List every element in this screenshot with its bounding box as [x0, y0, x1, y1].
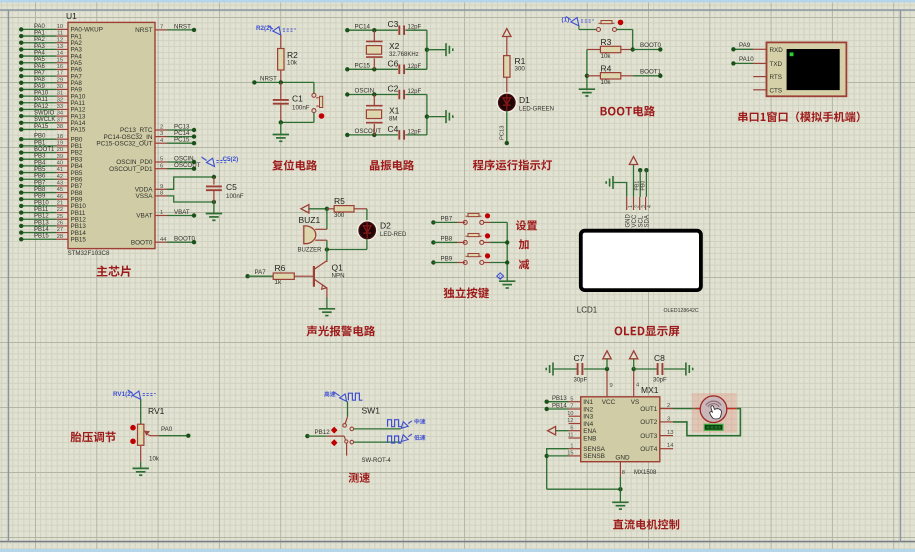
- svg-text:LCD1: LCD1: [577, 306, 598, 315]
- svg-text:PB11: PB11: [34, 207, 49, 213]
- svg-text:1: 1: [160, 210, 163, 216]
- svg-text:PA12: PA12: [34, 104, 49, 110]
- svg-text:PB4: PB4: [34, 160, 46, 166]
- svg-text:VS: VS: [631, 399, 640, 406]
- svg-text:STM32F103C8: STM32F103C8: [68, 250, 111, 257]
- svg-text:RTS: RTS: [770, 74, 782, 81]
- svg-text:ENB: ENB: [583, 435, 596, 442]
- svg-text:PB0: PB0: [34, 134, 46, 140]
- svg-text:30: 30: [57, 84, 63, 90]
- svg-text:PB14: PB14: [552, 404, 567, 410]
- svg-text:PB15: PB15: [71, 236, 87, 243]
- svg-text:6: 6: [160, 163, 163, 169]
- svg-text:15: 15: [57, 57, 63, 63]
- svg-text:39: 39: [57, 154, 63, 160]
- svg-text:44: 44: [160, 237, 167, 243]
- svg-text:PB7: PB7: [441, 215, 453, 222]
- svg-text:6: 6: [570, 425, 573, 431]
- svg-text:PA6: PA6: [34, 64, 46, 70]
- svg-text:MX1: MX1: [641, 385, 659, 395]
- svg-text:PA11: PA11: [34, 97, 48, 103]
- svg-text:17: 17: [57, 71, 63, 77]
- svg-text:PB9: PB9: [34, 194, 46, 200]
- svg-text:BOOT0: BOOT0: [174, 236, 196, 243]
- svg-text:27: 27: [57, 227, 63, 233]
- svg-text:22: 22: [57, 207, 63, 213]
- svg-text:41: 41: [57, 167, 63, 173]
- svg-text:10k: 10k: [601, 53, 612, 60]
- svg-text:8: 8: [622, 470, 625, 476]
- svg-text:NPN: NPN: [332, 272, 345, 279]
- svg-text:RV1(2): RV1(2): [113, 391, 133, 398]
- svg-text:11: 11: [568, 433, 574, 439]
- svg-text:SENSB: SENSB: [583, 453, 605, 460]
- svg-text:100nF: 100nF: [226, 193, 244, 200]
- svg-text:BOOT0: BOOT0: [131, 239, 153, 246]
- svg-text:C8: C8: [654, 353, 665, 363]
- svg-text:LED-GREEN: LED-GREEN: [519, 107, 554, 113]
- svg-text:BUZ1: BUZ1: [299, 215, 321, 225]
- svg-text:BOOT1: BOOT1: [640, 68, 662, 75]
- svg-text:NRST: NRST: [260, 76, 277, 83]
- svg-text:OLED128642C: OLED128642C: [664, 308, 699, 314]
- svg-text:45: 45: [57, 187, 63, 193]
- svg-text:SWDIO: SWDIO: [34, 111, 55, 117]
- svg-text:10: 10: [567, 411, 573, 417]
- svg-text:PC14: PC14: [355, 23, 371, 30]
- svg-text:LED-RED: LED-RED: [380, 232, 407, 238]
- svg-text:300: 300: [515, 66, 526, 73]
- svg-text:PA15: PA15: [71, 127, 86, 134]
- svg-text:20: 20: [57, 147, 63, 153]
- svg-text:42: 42: [57, 174, 63, 180]
- svg-text:BUZZER: BUZZER: [298, 248, 323, 254]
- svg-text:10k: 10k: [149, 456, 160, 463]
- svg-text:NRST: NRST: [174, 23, 191, 30]
- svg-text:VBAT: VBAT: [174, 209, 190, 216]
- svg-text:PC15: PC15: [355, 63, 371, 70]
- svg-text:OUT1: OUT1: [640, 406, 657, 413]
- svg-text:IN1: IN1: [583, 399, 593, 406]
- svg-text:ENA: ENA: [583, 428, 597, 435]
- svg-text:PB8: PB8: [34, 187, 46, 193]
- svg-text:OSCOUT: OSCOUT: [355, 128, 382, 135]
- svg-text:30pF: 30pF: [653, 378, 667, 384]
- svg-text:12pF: 12pF: [408, 25, 422, 31]
- svg-text:PA9: PA9: [739, 42, 751, 49]
- svg-text:2: 2: [667, 403, 670, 409]
- svg-text:U1: U1: [66, 11, 77, 21]
- svg-text:16: 16: [57, 64, 63, 70]
- svg-text:GND: GND: [625, 214, 631, 228]
- svg-text:C3: C3: [388, 19, 399, 29]
- svg-text:Q1: Q1: [332, 263, 344, 273]
- svg-text:10k: 10k: [287, 60, 298, 67]
- svg-text:PA7: PA7: [34, 70, 46, 76]
- svg-text:PA1: PA1: [34, 30, 46, 36]
- svg-text:PB9: PB9: [441, 256, 453, 263]
- svg-text:X2: X2: [389, 41, 400, 51]
- svg-text:C4: C4: [388, 124, 399, 134]
- svg-text:IN3: IN3: [583, 414, 593, 421]
- svg-text:PA2: PA2: [34, 37, 46, 43]
- svg-text:25: 25: [57, 214, 63, 220]
- svg-text:PA5: PA5: [34, 57, 46, 63]
- svg-text:5: 5: [160, 157, 163, 163]
- svg-text:OSCOUT_PD1: OSCOUT_PD1: [109, 166, 153, 173]
- svg-text:OUT4: OUT4: [640, 446, 657, 453]
- svg-text:OSCOUT: OSCOUT: [174, 162, 201, 169]
- svg-text:PB3: PB3: [34, 154, 46, 160]
- svg-text:PB1: PB1: [634, 181, 640, 191]
- svg-text:PA10: PA10: [34, 91, 49, 97]
- svg-text:MX1508: MX1508: [634, 470, 657, 476]
- svg-text:SCL: SCL: [638, 215, 644, 227]
- svg-text:C6: C6: [388, 58, 399, 68]
- svg-text:BOOT1: BOOT1: [34, 147, 55, 153]
- svg-text:PB12: PB12: [315, 429, 331, 436]
- svg-text:12pF: 12pF: [408, 64, 422, 70]
- svg-text:R6: R6: [275, 263, 286, 273]
- svg-text:12pF: 12pF: [408, 129, 422, 135]
- svg-text:PC15: PC15: [174, 137, 190, 144]
- svg-text:31: 31: [57, 91, 63, 97]
- svg-text:VSSA: VSSA: [135, 193, 153, 200]
- svg-text:BOOT0: BOOT0: [640, 42, 662, 49]
- svg-text:29: 29: [57, 77, 63, 83]
- svg-text:PB6: PB6: [34, 174, 46, 180]
- svg-text:D1: D1: [519, 95, 530, 105]
- svg-text:C5: C5: [226, 182, 237, 192]
- svg-text:PA3: PA3: [34, 44, 46, 50]
- svg-text:PB1: PB1: [34, 140, 46, 146]
- svg-text:46: 46: [57, 194, 63, 200]
- svg-text:X1: X1: [389, 106, 400, 116]
- svg-text:8M: 8M: [389, 117, 397, 123]
- svg-text:D2: D2: [380, 221, 391, 231]
- svg-text:PA8: PA8: [34, 77, 46, 83]
- svg-text:33: 33: [57, 104, 63, 110]
- svg-text:12: 12: [567, 418, 573, 424]
- svg-text:C7: C7: [574, 353, 585, 363]
- svg-text:R5: R5: [334, 196, 345, 206]
- svg-text:C5(2): C5(2): [223, 156, 239, 163]
- svg-text:4: 4: [647, 205, 653, 208]
- svg-text:3: 3: [160, 131, 163, 137]
- svg-text:12pF: 12pF: [408, 89, 422, 95]
- svg-text:PB7: PB7: [34, 180, 46, 186]
- svg-text:43: 43: [57, 180, 63, 186]
- svg-text:SW1: SW1: [362, 405, 381, 415]
- svg-text:C2: C2: [388, 84, 399, 94]
- svg-text:RXD: RXD: [770, 47, 784, 54]
- svg-text:32.768KHz: 32.768KHz: [389, 52, 419, 58]
- svg-text:IN4: IN4: [583, 421, 593, 428]
- svg-text:12: 12: [57, 37, 63, 43]
- svg-text:14: 14: [57, 51, 63, 57]
- svg-text:R4: R4: [601, 63, 612, 73]
- svg-text:PB0: PB0: [641, 181, 647, 191]
- svg-text:R2(2): R2(2): [256, 25, 272, 32]
- svg-text:PA0: PA0: [161, 426, 173, 433]
- svg-text:PA7: PA7: [255, 269, 267, 276]
- svg-text:PB5: PB5: [34, 167, 46, 173]
- svg-text:PA15: PA15: [34, 124, 49, 130]
- svg-text:13: 13: [57, 44, 63, 50]
- svg-text:IN2: IN2: [583, 406, 593, 413]
- svg-text:13: 13: [667, 430, 673, 436]
- svg-text:18: 18: [57, 134, 63, 140]
- svg-text:1k: 1k: [275, 279, 282, 286]
- svg-text:VCC: VCC: [632, 214, 638, 227]
- svg-text:CTS: CTS: [770, 87, 783, 94]
- svg-text:100nF: 100nF: [292, 105, 310, 112]
- svg-text:PB14: PB14: [34, 227, 49, 233]
- svg-text:300: 300: [334, 212, 345, 219]
- svg-text:R2: R2: [287, 50, 298, 60]
- svg-text:NRST: NRST: [135, 27, 152, 34]
- svg-text:19: 19: [57, 140, 63, 146]
- svg-text:38: 38: [57, 124, 63, 130]
- svg-text:3: 3: [667, 416, 670, 422]
- svg-text:2: 2: [160, 125, 163, 131]
- svg-text:11: 11: [57, 31, 63, 37]
- svg-text:R1: R1: [515, 56, 526, 66]
- svg-text:PA0: PA0: [34, 24, 46, 30]
- svg-text:SW-ROT-4: SW-ROT-4: [362, 458, 392, 464]
- svg-text:PA10: PA10: [739, 56, 754, 63]
- svg-text:OUT3: OUT3: [640, 433, 657, 440]
- svg-text:7: 7: [160, 25, 163, 31]
- svg-text:10: 10: [57, 24, 63, 30]
- svg-text:5: 5: [570, 396, 573, 402]
- svg-text:PA9: PA9: [34, 84, 46, 90]
- svg-text:28: 28: [57, 234, 63, 240]
- svg-text:PA4: PA4: [34, 50, 46, 56]
- svg-text:21: 21: [57, 201, 63, 207]
- svg-text:R3: R3: [601, 37, 612, 47]
- svg-text:PB15: PB15: [34, 234, 49, 240]
- svg-text:PB13: PB13: [552, 396, 567, 402]
- svg-text:VBAT: VBAT: [136, 213, 152, 220]
- svg-text:9: 9: [610, 383, 613, 389]
- svg-text:14: 14: [667, 443, 674, 449]
- svg-text:30pF: 30pF: [574, 378, 588, 384]
- svg-text:C1: C1: [292, 94, 303, 104]
- svg-text:10k: 10k: [601, 79, 612, 86]
- svg-text:PB12: PB12: [34, 214, 49, 220]
- svg-text:PB8: PB8: [441, 235, 453, 242]
- svg-text:PB10: PB10: [34, 200, 49, 206]
- svg-text:OUT2: OUT2: [640, 419, 657, 426]
- svg-text:1: 1: [570, 443, 573, 449]
- svg-text:VCC: VCC: [602, 399, 616, 406]
- svg-text:40: 40: [57, 160, 63, 166]
- svg-text:TXD: TXD: [770, 61, 783, 68]
- svg-text:PC13: PC13: [500, 125, 506, 140]
- svg-text:PB13: PB13: [34, 220, 49, 226]
- svg-text:34: 34: [57, 111, 63, 117]
- svg-text:RV1: RV1: [148, 406, 165, 416]
- svg-text:SDA: SDA: [645, 215, 651, 227]
- svg-text:GND: GND: [615, 455, 630, 462]
- svg-text:SWCLK: SWCLK: [34, 117, 55, 123]
- svg-text:(1): (1): [562, 17, 570, 24]
- svg-text:PC15-OSC32_OUT: PC15-OSC32_OUT: [96, 140, 152, 147]
- svg-text:7: 7: [570, 404, 573, 410]
- svg-text:26: 26: [57, 221, 63, 227]
- svg-text:37: 37: [57, 117, 63, 123]
- svg-text:SENSA: SENSA: [583, 446, 605, 453]
- svg-text:OSCIN: OSCIN: [355, 88, 375, 95]
- svg-text:32: 32: [57, 97, 63, 103]
